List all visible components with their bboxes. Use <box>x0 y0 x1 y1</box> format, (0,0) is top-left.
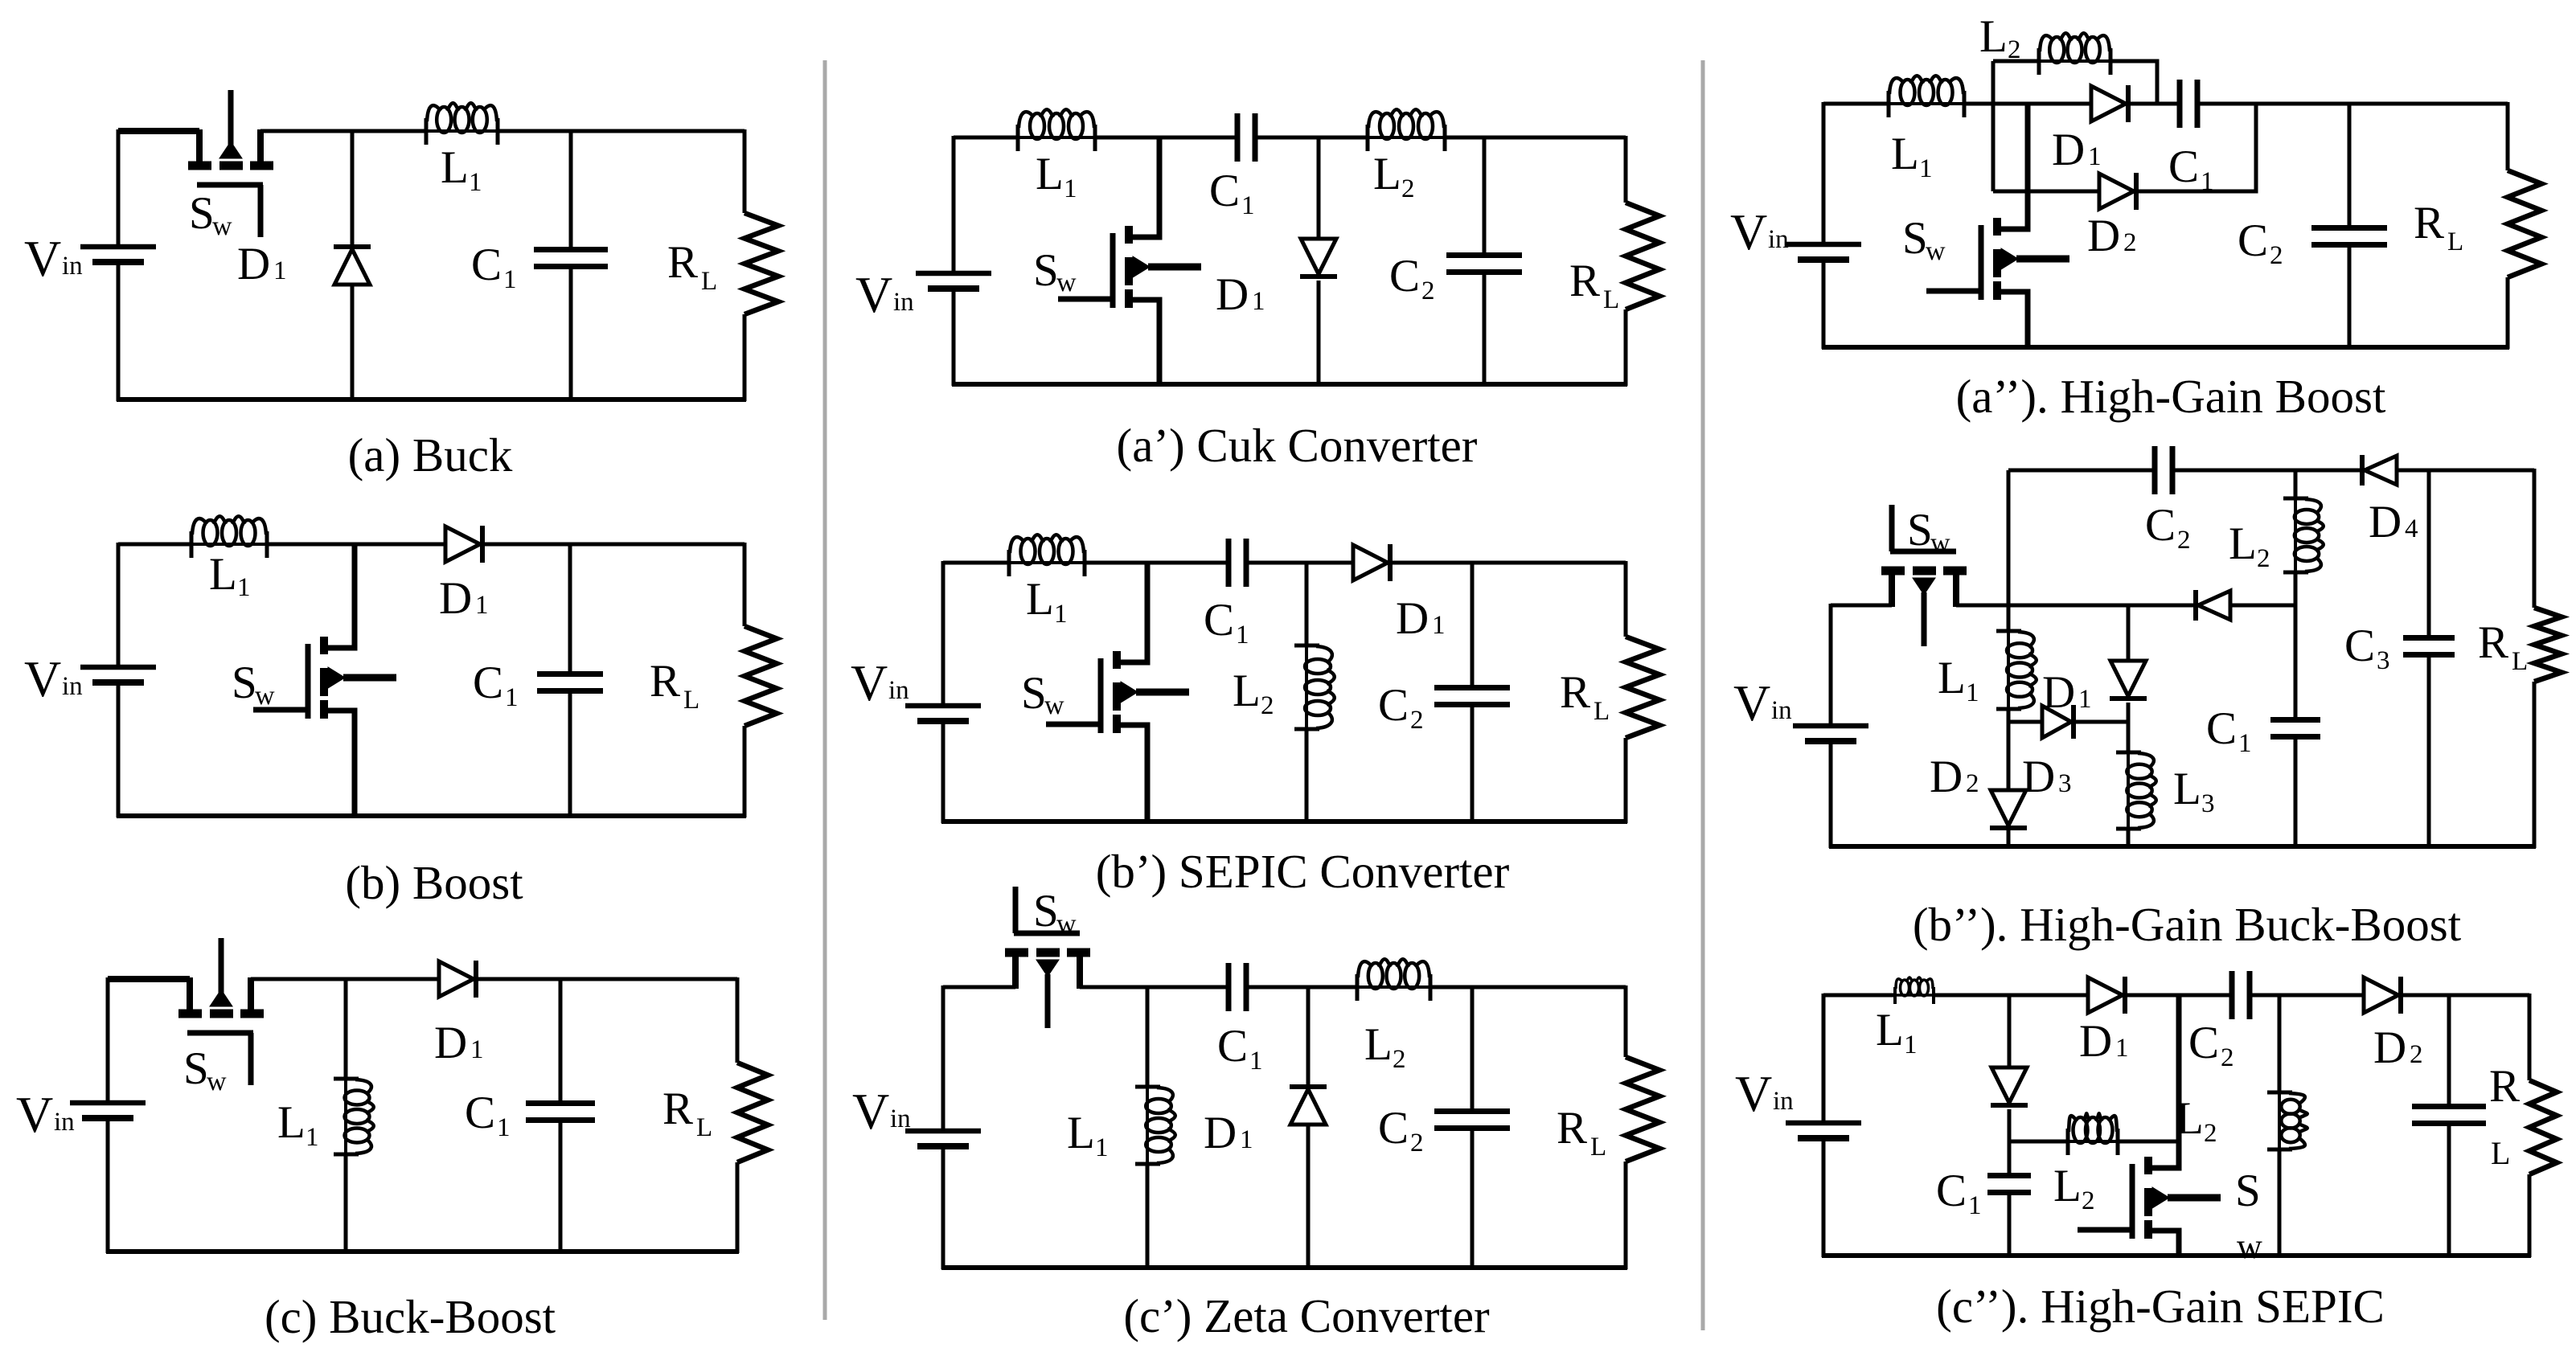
wire: bottom return wire <box>1829 844 2536 849</box>
svg-text:2: 2 <box>1421 277 1435 305</box>
diode (vertical below node, pointing down) <box>1991 995 2028 1175</box>
svg-text:L: L <box>683 686 699 715</box>
label C2 <box>1389 251 1435 305</box>
svg-text:L: L <box>209 549 237 600</box>
svg-text:S: S <box>1902 213 1928 264</box>
svg-text:1: 1 <box>1236 621 1249 649</box>
label C2 <box>1378 680 1424 735</box>
wire: mid wire switch to vertical node <box>1956 604 2008 608</box>
wire: top wire D1 to C2 node to right corner <box>1393 561 1626 565</box>
svg-text:V: V <box>1735 1065 1772 1122</box>
inductor L3 (vertical branch) <box>2116 722 2156 846</box>
inductor L1 (on top wire) <box>190 516 269 558</box>
svg-text:4: 4 <box>2405 514 2418 543</box>
label L2 <box>1233 666 1274 720</box>
wire: left vertical <box>1829 604 1833 726</box>
resistor RL (load) <box>744 543 777 817</box>
label S <box>2235 1166 2261 1216</box>
capacitor C1 (vertical branch) <box>1987 1176 2031 1258</box>
diode D1 (on top wire, pointing right) <box>445 526 482 563</box>
wire: top wire D1 to C1 node and right corner <box>478 977 737 981</box>
label Vin <box>1733 674 1792 731</box>
svg-text:L: L <box>1036 149 1064 199</box>
battery Vin (source) <box>80 667 156 690</box>
wire: top wire from switch to node D1 <box>260 129 352 133</box>
capacitor C1 (on top wire) <box>1229 539 1246 587</box>
label L1 <box>277 1097 319 1152</box>
battery Vin (source) <box>1793 726 1868 748</box>
capacitor C3 (vertical branch) <box>2403 470 2455 846</box>
wire: left vertical from top wire down to battery <box>117 129 121 247</box>
label C1 <box>2206 703 2252 758</box>
svg-text:2: 2 <box>2257 544 2270 573</box>
wire: top wire C1 to D1 node to L2 <box>1255 136 1368 140</box>
svg-text:(b) Boost: (b) Boost <box>345 856 523 909</box>
capacitor C1 (vertical branch) <box>2270 720 2320 847</box>
label D3 <box>2022 752 2072 802</box>
svg-text:C: C <box>2188 1018 2219 1068</box>
svg-text:C: C <box>2168 141 2199 192</box>
svg-text:R: R <box>1560 667 1590 718</box>
inductor L2 (on top wire) <box>1356 959 1432 1001</box>
diode D1 (on top wire, pointing right) <box>2088 977 2125 1014</box>
wire: top wire C1 to L2 node to D1 <box>1246 561 1353 565</box>
diode D1 (vertical, pointing down) <box>1300 137 1337 384</box>
inductor L2 (right vertical branch) <box>2267 995 2307 1256</box>
svg-text:D: D <box>1216 269 1249 320</box>
label D2 <box>2373 1022 2423 1073</box>
separator between column 2 and 3 <box>1701 60 1705 1330</box>
caption (c) Buck-Boost <box>265 1290 556 1343</box>
svg-text:1: 1 <box>1966 678 1979 707</box>
svg-text:V: V <box>24 230 61 287</box>
svg-text:R: R <box>2489 1061 2520 1112</box>
wire: top branch C2 to L2 node to D4 <box>2172 469 2362 473</box>
wire: main wire node A to D1 <box>1993 102 2091 106</box>
svg-text:L: L <box>1938 653 1966 703</box>
label Vin <box>24 650 83 707</box>
svg-text:L: L <box>2176 1093 2204 1144</box>
capacitor C1 (on top wire) <box>1229 963 1246 1011</box>
svg-text:D: D <box>2022 752 2055 802</box>
caption (b'') High-Gain Buck-Boost <box>1913 898 2462 951</box>
label L1 <box>1891 129 1933 183</box>
svg-text:1: 1 <box>475 591 489 620</box>
caption (a') Cuk Converter <box>1117 419 1478 472</box>
label L2 <box>1364 1019 1406 1074</box>
svg-text:2: 2 <box>2008 35 2021 64</box>
wire: top wire C1 to D1 node to L2 <box>1246 985 1357 989</box>
wire: top wire L1 to drain node to C1 <box>1095 136 1237 140</box>
svg-text:D: D <box>1396 593 1429 644</box>
label L1 <box>1067 1108 1109 1162</box>
label L1 <box>441 142 482 197</box>
wire: main wire C1 to C2 node to right corner <box>2197 102 2508 106</box>
label Sw <box>1907 505 1950 558</box>
svg-text:D: D <box>2369 497 2402 547</box>
wire: D2 branch to rejoin main wire <box>2139 104 2256 191</box>
svg-text:D: D <box>2052 125 2085 175</box>
battery Vin (source) <box>1786 1123 1861 1145</box>
svg-text:(c’’). High-Gain SEPIC: (c’’). High-Gain SEPIC <box>1936 1280 2385 1333</box>
wire: left lead to left vertical <box>1831 604 1892 608</box>
svg-text:L: L <box>1594 697 1610 726</box>
inductor L1 (on top wire) <box>1007 535 1086 576</box>
svg-text:R: R <box>667 237 698 288</box>
wire: bottom return wire <box>106 1249 739 1254</box>
svg-text:w: w <box>1056 909 1077 939</box>
resistor RL (load) <box>744 129 778 401</box>
wire: top wire L1 node to C1 <box>1147 985 1229 989</box>
label w (subscript of Sw) <box>2237 1227 2262 1266</box>
label Sw <box>1033 886 1077 939</box>
wire: bottom return wire <box>117 397 746 402</box>
label L2 (lower) <box>2053 1161 2095 1215</box>
inductor L2 (lower branch horizontal) <box>2066 1113 2119 1155</box>
inductor L1 (vertical branch) <box>1996 605 2037 790</box>
label C3 <box>2344 621 2390 675</box>
capacitor C2 (vertical branch) <box>1446 137 1522 384</box>
wire: top wire Vin to L1 <box>943 561 1009 565</box>
wire: top-left thick segment from Vin to switch <box>118 128 199 134</box>
wire: top wire L2 to C2 node to right corner <box>1445 136 1626 140</box>
svg-text:C: C <box>1378 680 1409 731</box>
label C1 <box>2168 141 2214 196</box>
diode D1 (on top wire, pointing right) <box>1353 544 1390 581</box>
svg-text:3: 3 <box>2201 789 2215 818</box>
wire: vertical x=2498 from top branch to mid wire <box>2007 470 2011 605</box>
label L1 <box>1026 574 1068 629</box>
wire: top-left thick segment <box>108 976 190 982</box>
svg-text:in: in <box>62 252 83 281</box>
svg-text:R: R <box>1569 256 1600 306</box>
svg-text:R: R <box>1557 1103 1587 1153</box>
caption (c') Zeta Converter <box>1123 1289 1490 1342</box>
svg-text:C: C <box>2344 621 2375 671</box>
label Vin <box>1730 203 1789 260</box>
svg-text:w: w <box>255 681 275 711</box>
svg-text:C: C <box>1936 1166 1967 1216</box>
svg-text:L: L <box>1979 11 2008 62</box>
wire: top wire L1 node to D1 <box>346 977 439 981</box>
wire: bottom return wire <box>941 819 1627 824</box>
label C2 <box>2145 500 2191 555</box>
inductor L1 (on top wire, small) <box>1893 977 1935 1004</box>
svg-text:L: L <box>1876 1005 1904 1055</box>
label Vin <box>16 1086 75 1143</box>
wire: left vertical to battery <box>106 977 110 1103</box>
svg-text:S: S <box>189 188 215 239</box>
svg-text:L: L <box>696 1113 712 1142</box>
wire: left vertical battery to bottom <box>1829 745 1833 848</box>
svg-text:S: S <box>183 1043 209 1094</box>
diode D4 (top branch, pointing left) <box>2362 455 2397 486</box>
label D1 <box>1396 593 1446 644</box>
svg-text:L: L <box>1067 1108 1095 1158</box>
svg-text:1: 1 <box>237 573 251 602</box>
wire: left vertical battery to bottom <box>1822 264 1826 349</box>
label Vin <box>855 266 914 323</box>
svg-text:D: D <box>1204 1108 1237 1158</box>
node A vertical link (L2 branch / D2 branch) <box>1991 61 1996 191</box>
label L2 <box>1979 11 2021 64</box>
label C1 <box>1204 595 1249 649</box>
wire: mid diode to L2 vertical <box>2230 604 2295 608</box>
diode (mid wire, pointing left, unlabeled) <box>2196 590 2230 621</box>
svg-text:1: 1 <box>2088 142 2102 171</box>
wire: L2/C1 vertical mid junction down to C1 <box>2294 605 2298 720</box>
transistor Sw (MOSFET, rotated) <box>178 938 264 1085</box>
wire: top wire from L1 to drain node <box>267 543 355 547</box>
svg-text:(c) Buck-Boost: (c) Buck-Boost <box>265 1290 556 1343</box>
label Vin <box>851 654 909 711</box>
svg-text:1: 1 <box>1432 611 1446 640</box>
wire: L2 lower branch right to drain vertical <box>2118 1140 2179 1144</box>
svg-text:C: C <box>1217 1021 1248 1071</box>
transistor Sw (MOSFET, rotated, gate up) <box>1005 887 1090 1028</box>
label C2 <box>1378 1103 1424 1157</box>
inductor L1 (vertical branch) <box>1135 987 1175 1268</box>
wire: top wire from L1 to C1 node <box>498 129 571 133</box>
wire: mid wire D1 node to mid diode <box>2128 604 2196 608</box>
svg-text:in: in <box>1773 1087 1794 1116</box>
svg-text:1: 1 <box>503 265 517 294</box>
transistor Sw (MOSFET, rotated) <box>188 90 273 237</box>
svg-text:R: R <box>2414 198 2444 248</box>
svg-text:C: C <box>2238 215 2268 266</box>
capacitor C2 (vertical branch) <box>1434 563 1510 822</box>
svg-text:C: C <box>2206 703 2237 754</box>
caption (c'') High-Gain SEPIC <box>1936 1280 2385 1333</box>
wire: left vertical from battery to bottom <box>117 686 121 817</box>
svg-text:L: L <box>1233 666 1261 716</box>
node: D1 top junction / wire to L1 <box>352 129 426 133</box>
label RL <box>650 656 699 715</box>
svg-text:D: D <box>1930 752 1963 802</box>
label D1 <box>434 1018 484 1068</box>
label D1 <box>237 239 287 289</box>
label L1 <box>1036 149 1077 203</box>
label Sw <box>183 1043 227 1096</box>
capacitor C1 (vertical branch) <box>526 979 595 1252</box>
label Vin <box>1735 1065 1794 1122</box>
svg-text:w: w <box>1056 268 1077 297</box>
label RL <box>2478 617 2528 676</box>
svg-text:1: 1 <box>497 1113 511 1142</box>
svg-text:D: D <box>2087 211 2120 261</box>
svg-text:C: C <box>473 658 503 708</box>
label Vin <box>852 1083 911 1140</box>
resistor RL (load) <box>1626 561 1659 823</box>
svg-text:V: V <box>852 1083 889 1140</box>
svg-text:in: in <box>1768 225 1789 254</box>
label L1 <box>1876 1005 1918 1059</box>
svg-text:C: C <box>1378 1103 1409 1153</box>
wire: left vertical battery to bottom <box>1822 1142 1826 1257</box>
wire: left vertical to battery <box>1822 994 1826 1123</box>
label Sw <box>1033 245 1077 297</box>
svg-text:1: 1 <box>1095 1133 1109 1162</box>
wire: mid wire from node to D1 node <box>2008 604 2128 608</box>
wire: left vertical battery to bottom <box>106 1122 110 1253</box>
svg-text:w: w <box>1044 690 1064 720</box>
svg-text:2: 2 <box>2221 1043 2234 1072</box>
svg-text:S: S <box>1033 886 1059 936</box>
wire: main wire D1 to C1 <box>2131 102 2180 106</box>
resistor RL (load) <box>737 977 768 1253</box>
svg-text:D: D <box>2079 1016 2112 1067</box>
capacitor C2 (on top branch) <box>2155 446 2172 494</box>
svg-text:in: in <box>62 672 83 701</box>
svg-text:R: R <box>2478 617 2508 668</box>
svg-text:C: C <box>465 1088 495 1138</box>
wire: top wire from Vin to L1 <box>118 543 191 547</box>
label C1 <box>465 1088 511 1142</box>
wire: left vertical to battery <box>941 561 945 703</box>
wire: top branch from vertical to C2 <box>2008 469 2155 473</box>
svg-text:1: 1 <box>2115 1034 2129 1063</box>
diode D3 (horizontal, pointing right) <box>2042 705 2074 739</box>
wire: top wire L2 to C2 node to right corner <box>1430 985 1626 989</box>
diode D1 (vertical, pointing up) <box>334 131 371 401</box>
svg-text:2: 2 <box>1966 769 1979 798</box>
svg-text:3: 3 <box>2058 769 2072 798</box>
svg-text:in: in <box>890 1104 911 1133</box>
svg-text:S: S <box>1907 505 1933 555</box>
svg-text:V: V <box>1730 203 1767 260</box>
svg-text:R: R <box>662 1084 693 1134</box>
svg-text:L: L <box>2229 518 2257 569</box>
svg-text:(a) Buck: (a) Buck <box>348 428 513 481</box>
capacitor C2 (vertical branch) <box>1434 987 1510 1268</box>
label Sw <box>1021 668 1064 720</box>
capacitor C2 (on top wire) <box>2232 971 2250 1019</box>
svg-text:1: 1 <box>273 256 287 285</box>
label RL <box>1569 256 1619 314</box>
battery Vin (source) <box>905 706 981 728</box>
label D1 <box>2052 125 2102 175</box>
wire: top wire Vin to L1 <box>954 136 1018 140</box>
svg-text:w: w <box>1930 528 1950 558</box>
inductor L1 (on top wire) <box>1016 109 1097 151</box>
label C1 <box>1217 1021 1263 1076</box>
label D1 <box>1204 1108 1253 1158</box>
wire: top branch D4 to C3 node to right corner <box>2397 469 2534 473</box>
resistor RL (load) <box>2534 469 2562 848</box>
wire: left vertical to battery <box>941 985 945 1131</box>
wire: L2 branch horizontal left part <box>1993 59 2039 64</box>
label C2 <box>2188 1018 2234 1072</box>
svg-text:C: C <box>1389 251 1420 301</box>
svg-text:L: L <box>2447 227 2463 256</box>
wire: left vertical to battery <box>952 136 956 273</box>
label RL <box>667 237 717 296</box>
diode D2 (on top wire, pointing right) <box>2364 977 2401 1014</box>
transistor Sw (MOSFET) <box>253 544 396 816</box>
wire: top wire from drain node to D1 <box>355 543 445 547</box>
svg-text:w: w <box>212 211 232 241</box>
caption (a'') High-Gain Boost <box>1956 370 2386 423</box>
transistor Sw (MOSFET, rotated, gate up) <box>1881 505 1967 646</box>
resistor RL (load) <box>1626 985 1659 1269</box>
svg-text:in: in <box>888 676 909 705</box>
svg-text:2: 2 <box>1393 1045 1406 1074</box>
inductor L1 (on top wire) <box>425 103 499 145</box>
wire: top wire switch to L1 node <box>251 977 346 981</box>
label C2 <box>2238 215 2283 270</box>
inductor L1 (vertical branch) <box>334 979 374 1252</box>
svg-text:L: L <box>2173 764 2201 814</box>
label L2 <box>1373 149 1415 203</box>
diode D1 (vertical, pointing up) <box>1290 987 1327 1268</box>
resistor RL (load) <box>2508 102 2541 349</box>
transistor Sw (MOSFET) <box>1926 104 2069 347</box>
label L2 (right) <box>2176 1093 2217 1148</box>
capacitor C2 (vertical branch) <box>2311 104 2387 347</box>
svg-text:C: C <box>471 240 502 290</box>
svg-text:C: C <box>1204 595 1234 645</box>
svg-text:V: V <box>855 266 892 323</box>
svg-text:2: 2 <box>1410 706 1424 735</box>
caption (b') SEPIC Converter <box>1096 845 1510 898</box>
capacitor C1 (on main wire) <box>2180 80 2197 128</box>
svg-text:1: 1 <box>505 683 519 712</box>
label C1 <box>473 658 519 712</box>
svg-text:2: 2 <box>2177 526 2191 555</box>
wire: left vertical from battery to bottom wire <box>117 266 121 401</box>
wire: top wire from D1 to C1 node and right corner <box>485 543 744 547</box>
wire: bottom return wire <box>941 1265 1627 1270</box>
svg-text:L: L <box>277 1097 306 1148</box>
inductor L2 (vertical branch) <box>1294 563 1335 822</box>
label L1 <box>1938 653 1979 707</box>
svg-text:1: 1 <box>1968 1191 1982 1220</box>
wire: D2 branch lower horizontal <box>1993 190 2099 194</box>
label C1 <box>1209 166 1255 220</box>
svg-text:2: 2 <box>1401 174 1415 203</box>
svg-text:2: 2 <box>2410 1040 2423 1069</box>
svg-text:L: L <box>2512 647 2528 676</box>
wire: D3 to D1 vertical junction <box>2076 720 2128 724</box>
diode D2 (vertical, pointing down) <box>1990 790 2027 846</box>
diode D1 (vertical, pointing down) <box>2110 605 2147 722</box>
diode D1 (on main wire, pointing right) <box>2091 85 2128 122</box>
battery Vin (source) <box>80 247 156 269</box>
svg-text:1: 1 <box>1054 600 1068 629</box>
svg-text:S: S <box>1033 245 1059 296</box>
inductor L2 (on top wire) <box>1366 109 1446 151</box>
label L3 <box>2173 764 2215 818</box>
svg-text:L: L <box>441 142 469 193</box>
capacitor C3 (output, vertical branch) <box>2412 995 2486 1256</box>
svg-text:1: 1 <box>1240 1125 1253 1154</box>
svg-text:1: 1 <box>469 168 482 197</box>
transistor Sw (MOSFET) <box>1058 137 1201 384</box>
wire: bottom return wire <box>117 813 746 818</box>
label D2 <box>2087 211 2137 261</box>
wire: top wire L1 to node <box>1934 994 2088 998</box>
label D4 <box>2369 497 2418 547</box>
label D1 <box>1216 269 1265 320</box>
battery Vin (source) <box>916 273 991 296</box>
svg-text:V: V <box>1733 674 1770 731</box>
svg-text:L: L <box>701 267 717 296</box>
svg-text:1: 1 <box>1241 191 1255 220</box>
svg-text:(a’) Cuk Converter: (a’) Cuk Converter <box>1117 419 1478 472</box>
svg-text:w: w <box>1926 236 1946 266</box>
wire: top wire from C1 node to right corner <box>571 129 744 133</box>
wire: D3 branch from L1 vertical <box>2008 720 2042 724</box>
